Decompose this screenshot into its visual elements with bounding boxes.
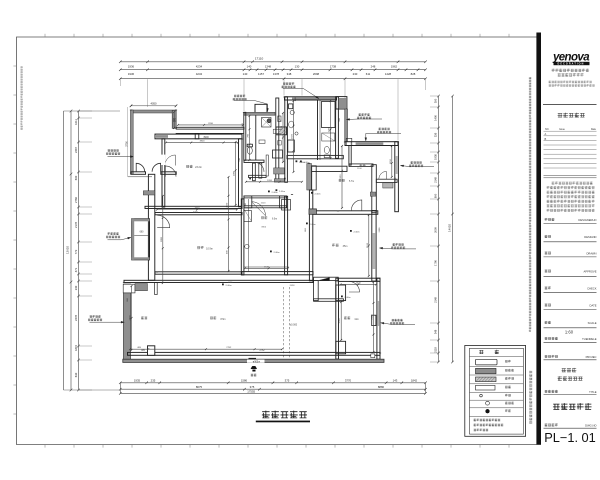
wall kitchen left [241, 199, 244, 275]
legend row separators [470, 356, 524, 416]
living level dashed line A [283, 287, 285, 358]
leader L2 (flue note) leader arrowhead [128, 237, 131, 239]
svg-text:PL−1. 01: PL−1. 01 [544, 430, 596, 445]
yenova logo underline-box [554, 62, 590, 65]
svg-text:1378: 1378 [273, 72, 280, 76]
chain master east v line [235, 142, 237, 205]
svg-text:2118: 2118 [434, 347, 438, 353]
svg-text:4234: 4234 [196, 64, 203, 68]
branch name [558, 113, 585, 118]
svg-text:375: 375 [285, 378, 290, 382]
svg-text:4050: 4050 [151, 102, 157, 106]
bedroom2 window sill box [372, 315, 376, 325]
revision table double rule [544, 176, 597, 178]
bathroom shelf box [322, 133, 335, 141]
wall bedroom1 right [172, 110, 176, 128]
corridor niche wall [312, 166, 348, 171]
chain dining west interior line [162, 196, 164, 283]
svg-text:611: 611 [366, 72, 371, 76]
legend sym original wall [476, 359, 498, 365]
row approved rule [544, 275, 597, 277]
bath2 inner divider [255, 115, 257, 160]
legend outer box [465, 346, 526, 437]
duct small box upper [278, 116, 281, 122]
leader L4 (bathroom note) text line2 [282, 86, 296, 88]
chain bedroom2 east v ticks [373, 281, 375, 353]
svg-text:DATE: DATE [590, 303, 597, 307]
bedroom1 bottom outer stub [128, 176, 152, 178]
leader L7 (window note) leader line [401, 166, 435, 167]
label kitchen [261, 216, 267, 219]
svg-text:1011: 1011 [74, 119, 78, 125]
legend label medium circle [505, 402, 514, 405]
bottom dim line3 ticks [119, 392, 427, 395]
svg-text:600: 600 [434, 193, 438, 198]
kitchen counter vline [248, 199, 250, 272]
entry width annotation patch [247, 360, 265, 363]
alcove bottom wall [314, 299, 344, 302]
sheet frame border [17, 37, 537, 445]
chain bedroom3 east ticks [391, 145, 393, 178]
wall bathroom bottom [287, 155, 343, 158]
chain bathroom west ticks [293, 100, 295, 173]
wall center bathroom left [285, 97, 288, 183]
left dim inner ticks [77, 110, 80, 392]
row checked rule [544, 241, 597, 243]
svg-text:2880: 2880 [161, 236, 163, 242]
svg-text:DECORATION: DECORATION [558, 63, 585, 66]
svg-text:2.40m: 2.40m [309, 224, 315, 226]
bedroom2 right window gray [377, 301, 379, 326]
svg-text:5.7m: 5.7m [349, 181, 354, 183]
chain bath2 interior ticks [249, 115, 251, 161]
leader L3 (bath2 note) text line2 [233, 98, 247, 100]
right dim line inner [438, 96, 440, 362]
contact line1 [549, 81, 592, 83]
center bathroom inner divider b [319, 100, 321, 160]
svg-text:PROJEC: PROJEC [586, 355, 597, 359]
svg-text:1936: 1936 [434, 154, 438, 160]
chain master bottom h ticks [156, 209, 238, 211]
leader L6 (bedroom3 note) leader arrowhead [365, 138, 367, 141]
wall bedroom1 bottom seg B [161, 172, 176, 175]
label hall [339, 179, 345, 181]
center bathroom sink [289, 121, 294, 128]
leader L1 (left wall note) text line1 [108, 150, 119, 152]
wall bath2 left [244, 112, 246, 160]
legend label demolish wall [505, 369, 514, 372]
wall closet top [376, 179, 397, 182]
row scale rule [544, 327, 597, 329]
chain corridor top h line [178, 124, 243, 126]
kitchen fridge diag [244, 210, 252, 222]
center bathroom toilet2 tank [324, 155, 329, 158]
bedroom1 wardrobe door arc A [136, 163, 145, 172]
svg-text:1428: 1428 [385, 72, 392, 76]
svg-text:1157: 1157 [258, 72, 264, 76]
svg-text:35m: 35m [343, 245, 348, 248]
wall bath block south [249, 175, 267, 177]
dim 4050 ticks [130, 105, 178, 108]
svg-text:1100: 1100 [357, 168, 362, 170]
svg-text:10.9m: 10.9m [206, 248, 213, 251]
balcony top hatch box (gray) [135, 284, 148, 291]
top dim line1 ticks [119, 61, 427, 64]
svg-text:14610: 14610 [447, 224, 451, 232]
left dim mid ticks [70, 110, 73, 392]
flue box left gray [132, 219, 135, 260]
svg-text:2148: 2148 [434, 177, 438, 183]
kitchen fridge [282, 200, 291, 211]
legend label small circle [505, 394, 511, 397]
svg-text:1260: 1260 [267, 180, 273, 182]
chain kitchen bottom h line [245, 267, 288, 269]
svg-text:1540: 1540 [264, 266, 270, 268]
svg-text:2178: 2178 [74, 222, 78, 228]
left dim line mid [70, 111, 72, 390]
chain dining east ticks [228, 176, 230, 272]
entry threshold block [249, 358, 257, 362]
wall bottom inner line pair [128, 352, 381, 355]
wall kitchen bottom [242, 272, 314, 275]
svg-text:3750: 3750 [126, 141, 129, 147]
height note dot 8 [300, 161, 302, 163]
svg-text:4685: 4685 [228, 282, 234, 284]
corner pier gray fill [339, 98, 346, 108]
master door opening white [161, 155, 165, 165]
leader L10 (balcony wall note) text line2 [88, 319, 102, 321]
leader L8 (living window note) leader arrowhead [380, 247, 383, 249]
bedroom1 left ext line [126, 107, 128, 177]
svg-text:SCALE: SCALE [588, 321, 597, 325]
bath2 door arc [255, 162, 265, 172]
svg-text:NO.: NO. [545, 128, 550, 131]
leader L9 (bedroom2 window note) leader arrowhead [381, 322, 384, 324]
svg-text:348: 348 [434, 329, 438, 334]
chain bedroom1 right v line [173, 112, 175, 128]
svg-text:1900: 1900 [329, 126, 331, 132]
owner value line1 [562, 368, 577, 372]
legend sym filled circle [486, 409, 490, 413]
chain dining east line [228, 177, 230, 271]
svg-text:2698: 2698 [313, 72, 320, 76]
disclaimer paragraph line 1 [552, 182, 593, 185]
revision table rules [544, 131, 597, 168]
legend note line2 [474, 424, 504, 427]
disclaimer paragraph line 6 [547, 204, 595, 207]
master closet lines [165, 139, 238, 144]
bottom dim line 3 [120, 392, 425, 394]
legend sym demolish wall [476, 368, 497, 373]
kitchen door arc [252, 202, 266, 216]
top dim line2 ticks [119, 68, 427, 71]
wall master top hatch segment (gray) [156, 135, 168, 138]
corridor junction dots [249, 178, 285, 180]
center bathroom top window gray [292, 97, 335, 99]
bath2 toilet tank [247, 144, 252, 147]
legend sym new wall [476, 377, 497, 382]
svg-text:3900: 3900 [200, 141, 206, 143]
wall kitchen top band lower [244, 206, 287, 208]
wall bedroom2 right [377, 278, 380, 359]
plan title underline [256, 421, 310, 423]
duct small box diag [278, 116, 281, 122]
top dim line 1 [120, 61, 425, 63]
leader L8 (living window note) leader line [380, 247, 417, 250]
svg-text:1935: 1935 [134, 378, 141, 382]
bedroom3 pier top-left [346, 138, 352, 145]
legend label filled circle [505, 409, 511, 412]
height note dot 9 [350, 230, 352, 232]
closet door arc [379, 171, 387, 179]
svg-text:140: 140 [243, 72, 248, 76]
living balcony step [155, 283, 158, 295]
svg-text:1842: 1842 [411, 378, 418, 382]
svg-text:2.40m: 2.40m [344, 297, 350, 299]
svg-text:348: 348 [287, 72, 292, 76]
wall master bedroom right [239, 139, 243, 207]
svg-text:2.40m: 2.40m [273, 252, 279, 254]
svg-text:1500: 1500 [261, 202, 267, 204]
svg-text:8.5m: 8.5m [220, 319, 225, 321]
balcony top white box [123, 284, 135, 293]
washer hatched box lower (gray) [274, 179, 284, 182]
svg-text:300: 300 [434, 98, 438, 103]
leader L1 (left wall note) text line2 [106, 152, 120, 154]
chain bedroom3 east line [391, 146, 393, 177]
chain bedroom2 west ticks [340, 301, 342, 341]
legend sym low wall [476, 385, 496, 390]
legend inner box [470, 348, 524, 434]
svg-text:17555: 17555 [247, 390, 255, 394]
bedroom2 door arc [349, 282, 360, 293]
height note dot 1 [276, 189, 278, 191]
disclaimer paragraph line 3 [547, 191, 595, 194]
svg-text:12610: 12610 [66, 246, 70, 254]
svg-text:3770: 3770 [345, 378, 352, 382]
hatched strip right of bathroom (gray) [345, 109, 348, 142]
chain bathroom east line [330, 101, 332, 158]
bathroom shelf diag [322, 133, 335, 141]
chain kitchen bottom h ticks [244, 267, 289, 269]
wall center bathroom right [336, 97, 339, 159]
row designer rule [544, 223, 597, 225]
svg-text:1586: 1586 [241, 378, 248, 382]
height note dot 5 [306, 223, 308, 225]
svg-text:TUENRELE: TUENRELE [582, 337, 597, 341]
row drawing title CN label [545, 390, 558, 393]
right dim stubs to plan [430, 96, 439, 362]
svg-text:2698: 2698 [290, 285, 296, 287]
row project addr rule [544, 359, 597, 361]
svg-text:2009: 2009 [434, 227, 438, 233]
bedroom1 wardrobe door arc B [152, 163, 161, 172]
bedroom3 door arc [351, 200, 362, 211]
wall bedroom3 top [345, 142, 398, 146]
center bathroom vanity [288, 140, 295, 152]
svg-text:13m: 13m [370, 166, 375, 168]
bath2 washer box [276, 127, 287, 135]
chain living east ticks [368, 214, 370, 277]
chain balcony v ticks [131, 285, 133, 351]
row designer CN label [545, 218, 555, 221]
svg-text:DESIGND: DESIGND [584, 235, 596, 239]
bath subroom vertical wall [253, 163, 256, 181]
wall bedroom1 left (new wall gray) [130, 110, 133, 174]
leader L5 (right wall note) leader line [347, 118, 383, 121]
entry door symbol base [252, 370, 255, 372]
leader L6 (bedroom3 note) leader line [366, 133, 401, 140]
leader L1 (left wall note) leader arrowhead [130, 156, 133, 158]
center bathroom toilet2 [324, 146, 329, 153]
flue box outline [132, 219, 150, 260]
svg-text:1:60: 1:60 [565, 329, 574, 334]
wall bath2 bottom [244, 160, 264, 162]
wall corridor-living divider [309, 190, 312, 281]
row drawing number CN label [545, 423, 558, 426]
disclaimer paragraph line 7 [547, 209, 595, 212]
top dim extension lines [120, 79, 425, 140]
svg-text:2100: 2100 [367, 242, 369, 248]
chain bedroom2 top h ticks [340, 283, 378, 285]
legend label original wall [505, 360, 511, 363]
vertical note upper right margin [529, 77, 531, 332]
bath2 toilet [247, 147, 252, 154]
svg-text:2752: 2752 [226, 347, 232, 349]
kitchen counter hline [244, 266, 289, 268]
leader L7 (window note) text line2 [409, 165, 423, 167]
svg-text:6.0m: 6.0m [272, 219, 277, 221]
bottom dim line2 ticks [119, 388, 427, 391]
bath subroom jamb b [259, 163, 262, 178]
washer hatched box upper (gray) [274, 168, 285, 174]
bath2 shower tray [262, 118, 272, 128]
wall bedroom2 top [338, 278, 380, 281]
bottom dim line 2 [120, 388, 425, 390]
right dim outer ticks [451, 95, 454, 364]
label living room [332, 244, 339, 247]
row approved CN label [545, 270, 551, 272]
svg-text:CHECK: CHECK [587, 286, 597, 290]
kitchen sink circle [245, 244, 249, 248]
svg-text:APPROVE: APPROVE [584, 269, 597, 273]
chain living bottom h line [130, 348, 282, 350]
legend sym new wall hatch [476, 377, 495, 381]
svg-text:1796: 1796 [434, 260, 438, 266]
wall bedroom2 left [336, 278, 339, 359]
svg-text:1348: 1348 [265, 64, 272, 68]
dim 4050 line above bedroom1 [131, 105, 176, 107]
svg-text:630: 630 [74, 372, 78, 377]
row drawing number rule [544, 427, 597, 429]
svg-text:2478: 2478 [130, 315, 132, 321]
svg-text:8880: 8880 [378, 385, 385, 389]
leader L10 (balcony wall note) text line1 [90, 315, 101, 317]
wall bedroom3 left [349, 146, 351, 166]
living level dashed line B [288, 287, 290, 358]
leader L2 (flue note) text line1 [108, 232, 119, 234]
svg-text:11m: 11m [354, 319, 358, 321]
leader L3 (bath2 note) leader line [234, 100, 268, 111]
row proofread CN label [545, 286, 551, 289]
corner pier outline [336, 97, 347, 109]
svg-text:2150: 2150 [372, 314, 374, 320]
chain corridor top h ticks [177, 124, 244, 126]
svg-text:B: B [545, 137, 547, 141]
chain bedroom2 top h line [341, 283, 377, 285]
bath2 washer box inner [273, 129, 281, 133]
top dim line3 ticks [119, 77, 427, 80]
bath block towel fixture [259, 140, 265, 143]
chain bedroom2 east v line [373, 282, 375, 352]
row drawing title rule [544, 394, 597, 396]
svg-text:1700: 1700 [339, 318, 341, 324]
wall living north full [313, 211, 378, 215]
svg-text:1420: 1420 [356, 282, 362, 284]
svg-text:DRAWN: DRAWN [586, 251, 596, 255]
label balcony [141, 316, 147, 319]
slogan line1 [552, 69, 590, 72]
svg-text:2760: 2760 [74, 197, 78, 203]
row scale CN label [545, 321, 551, 324]
svg-text:4050: 4050 [193, 212, 199, 214]
leader L1 (left wall note) leader line [108, 156, 134, 158]
duct column walls [276, 98, 279, 180]
svg-text:2478: 2478 [74, 315, 78, 321]
row project addr CN label [545, 355, 558, 358]
chain corridor h line [246, 181, 302, 183]
wall west of master-dining (pair) [148, 174, 154, 280]
wall bedroom1 top (new wall gray) [131, 110, 176, 113]
bottom dim line 1 [120, 382, 425, 384]
svg-text:1150: 1150 [390, 158, 392, 163]
svg-text:2170: 2170 [227, 202, 229, 208]
svg-text:1936: 1936 [128, 64, 135, 68]
row checked CN label [545, 235, 551, 238]
slogan line2 [558, 73, 584, 76]
svg-text:2.40m: 2.40m [279, 191, 285, 193]
duct lower little box [278, 141, 281, 146]
chain master top h ticks [165, 142, 239, 144]
wall bedroom3 right [395, 142, 399, 212]
title block separator bar [536, 33, 541, 445]
corridor jamb a [266, 155, 268, 176]
svg-text:23.2m: 23.2m [195, 166, 202, 169]
dining door arc [157, 215, 170, 228]
center bathroom inner divider [317, 100, 319, 160]
flue box inner divider [134, 235, 149, 237]
top dim line 3 [120, 78, 425, 80]
right dim line outer [452, 96, 454, 362]
bottom wall notch [148, 346, 155, 356]
svg-text:248: 248 [371, 64, 376, 68]
closet window box (gray) [383, 183, 393, 188]
leader L10 (balcony wall note) leader line [90, 321, 125, 323]
chain living bottom h ticks [129, 348, 283, 350]
svg-text:1406: 1406 [434, 115, 438, 121]
vertical note right of legend [529, 371, 532, 424]
wall kitchen top band upper [244, 196, 287, 198]
wall center bathroom top [285, 97, 337, 100]
chain master bottom h line [157, 209, 237, 211]
kitchen stove [244, 211, 252, 222]
svg-text:143: 143 [393, 378, 398, 382]
chain duct col line [282, 113, 284, 162]
alcove black wedge [320, 278, 330, 281]
chain master east v ticks [235, 141, 237, 206]
bottom dim line1 ticks [119, 382, 427, 385]
svg-text:1936: 1936 [128, 72, 135, 76]
